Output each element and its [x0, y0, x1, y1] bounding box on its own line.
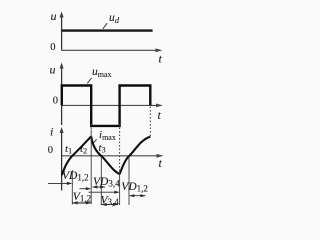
axis u (plot2) vertical	[61, 65, 63, 125]
axis t arrowhead (plot2)	[156, 104, 163, 108]
arrow above V3,4 into t4	[89, 191, 119, 193]
svg-text:V1,2: V1,2	[73, 191, 91, 204]
svg-text:i: i	[50, 125, 53, 139]
axis t arrowhead (plot3)	[157, 154, 164, 158]
axis i (plot3) vertical	[61, 130, 63, 191]
arrow VD3,4	[93, 186, 106, 188]
arrow V1,2 underline	[73, 202, 92, 204]
svg-text:0: 0	[48, 145, 53, 156]
dotted guide t6 (x=150.3)	[149, 107, 151, 137]
current curve branch 1 rising	[62, 136, 91, 175]
dotted guide t2 (x=91) upper	[90, 124, 92, 130]
tick at t3 (x=101.3)	[100, 157, 102, 206]
tick at t2 (x=91.2) below axis	[90, 156, 92, 204]
leader line for i_max	[93, 139, 96, 143]
svg-text:u: u	[50, 63, 56, 77]
axis u arrowhead (plot1)	[60, 12, 64, 18]
svg-text:0: 0	[53, 96, 58, 107]
axis t arrowhead (plot1)	[156, 48, 163, 52]
axis t (plot1)	[62, 49, 159, 51]
leader line for u_max	[87, 78, 91, 83]
leader line for u_d	[103, 23, 107, 29]
solid guide t2 through peak	[90, 130, 92, 156]
axis i arrowhead (plot3)	[60, 127, 64, 133]
waveform u_d constant line	[62, 29, 153, 31]
arrow V3,4 underline	[102, 204, 119, 206]
svg-text:u: u	[51, 9, 57, 23]
arrow VD1,2 second	[129, 195, 145, 197]
axis u (plot1) vertical	[61, 14, 63, 50]
axis t (plot2)	[62, 104, 160, 106]
current curve branch 2 decaying	[91, 136, 120, 174]
tick at t4 (x=119.6) lower solid	[119, 170, 121, 205]
axis t (plot3)	[62, 155, 160, 157]
square wave	[62, 86, 151, 126]
arrow into t2 above V1,2	[80, 188, 90, 190]
tick at t5 (x=129)	[128, 157, 130, 206]
arrow VD1,2 first	[48, 182, 71, 184]
svg-text:VD1,2: VD1,2	[121, 181, 148, 194]
svg-text:0: 0	[50, 42, 55, 53]
tick at t1 (x=72.3)	[71, 170, 73, 205]
svg-text:VD1,2: VD1,2	[62, 170, 89, 183]
dotted guide t4 (x=119.6)	[119, 124, 121, 170]
axis u arrowhead (plot2)	[60, 63, 64, 69]
current curve branch 3 rising	[120, 137, 151, 175]
